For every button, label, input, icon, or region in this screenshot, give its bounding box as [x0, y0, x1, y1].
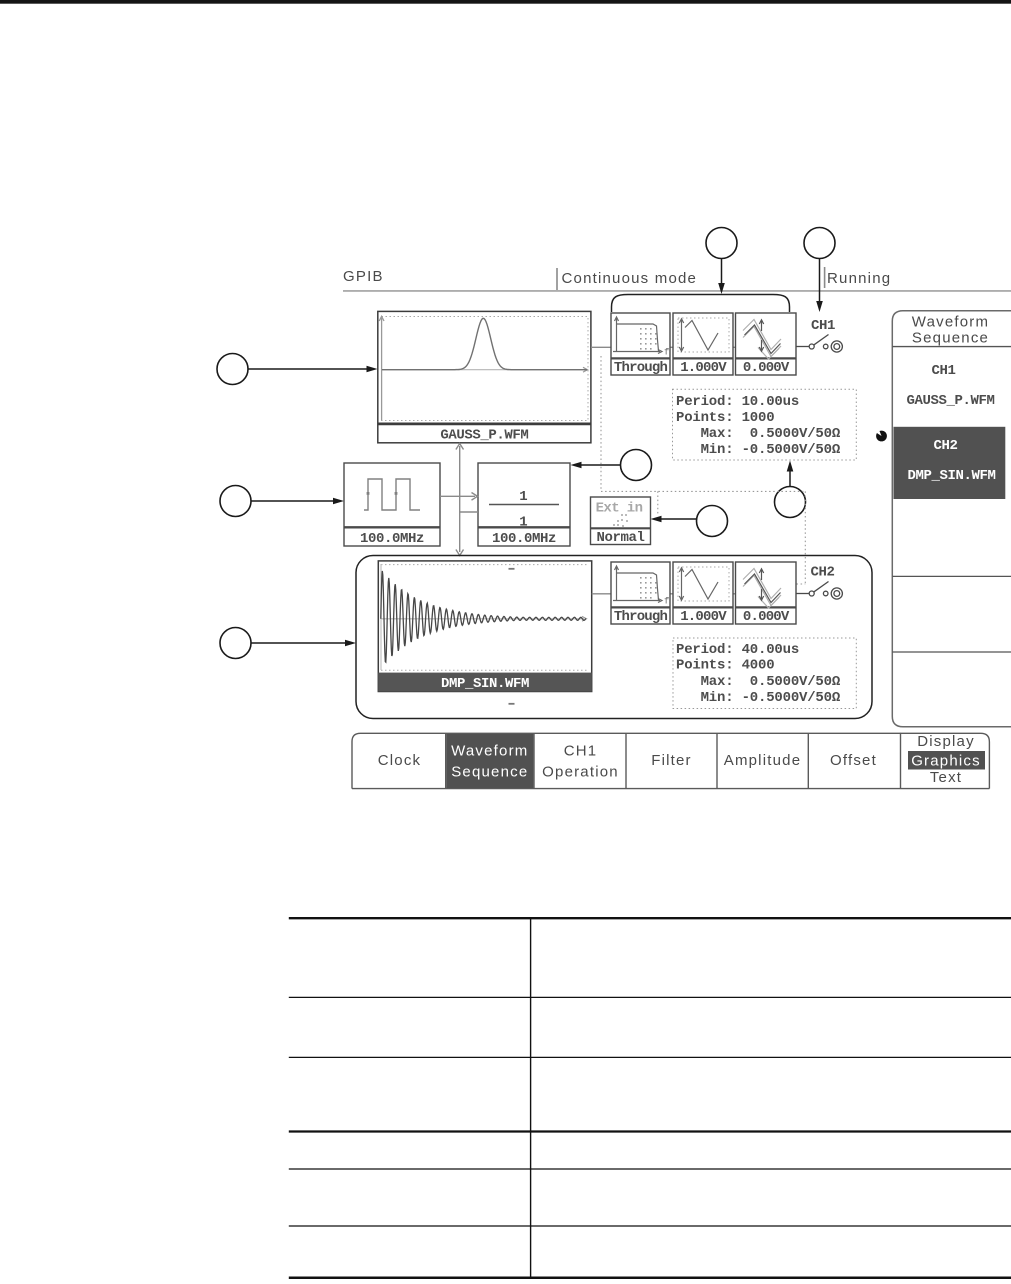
callout arrow 5	[571, 462, 621, 469]
CH1 period info dotted box	[673, 389, 857, 460]
callout circle 8	[220, 628, 251, 659]
table row rule 2	[289, 996, 1011, 998]
svg-text:Period: 40.00us: Period: 40.00us	[676, 642, 799, 658]
svg-text:Ext in: Ext in	[596, 501, 643, 517]
svg-text:Waveform: Waveform	[912, 314, 989, 331]
svg-text:Period: 10.00us: Period: 10.00us	[676, 394, 799, 410]
svg-text:Graphics: Graphics	[911, 753, 981, 770]
right menu separator 2	[892, 651, 1011, 653]
bottom menu cell dividers	[446, 733, 809, 788]
svg-text:1: 1	[519, 515, 527, 531]
svg-text:CH2: CH2	[933, 438, 957, 454]
callout circle 3	[706, 228, 737, 259]
callout arrow 7	[787, 461, 794, 487]
status separator tick left	[556, 268, 558, 290]
status separator tick right	[824, 267, 826, 288]
svg-text:CH1: CH1	[811, 318, 835, 334]
CH2 filter amplitude offset boxes	[611, 562, 796, 625]
svg-text:GPIB: GPIB	[343, 268, 384, 285]
callout arrow 2	[251, 498, 344, 505]
menu item Waveform Sequence selected	[446, 734, 533, 788]
svg-text:Clock: Clock	[378, 752, 422, 769]
svg-text:Sequence: Sequence	[912, 330, 989, 347]
CH1 period info text	[676, 394, 841, 458]
bottom menu bar frame	[352, 733, 901, 788]
dotted trigger path vertical right	[804, 491, 806, 584]
svg-text:Normal: Normal	[596, 530, 644, 546]
svg-text:100.0MHz: 100.0MHz	[360, 531, 424, 547]
svg-text:Points: 1000: Points: 1000	[676, 410, 774, 426]
callout circle 5	[621, 450, 652, 481]
table row rule 3	[289, 1056, 1011, 1058]
svg-text:Amplitude: Amplitude	[724, 752, 802, 769]
svg-text:Display: Display	[917, 733, 975, 750]
GAUSS_P waveform display box	[378, 311, 591, 442]
svg-text:Min: -0.5000V/50Ω: Min: -0.5000V/50Ω	[676, 690, 841, 706]
dotted trigger path vertical left	[600, 356, 602, 491]
table row rule 5	[289, 1168, 1011, 1170]
right side menu frame	[892, 311, 1011, 727]
DMP y-axis	[380, 564, 382, 670]
table column divider	[530, 918, 532, 1278]
dotted stub to CH2 switch	[797, 583, 806, 585]
wire GAUSS to filter row	[591, 346, 611, 348]
callout circle 1	[217, 354, 248, 385]
svg-text:Filter: Filter	[651, 752, 692, 769]
svg-text:100.0MHz: 100.0MHz	[492, 531, 556, 547]
svg-text:Points: 4000: Points: 4000	[676, 658, 774, 674]
right menu CH2 selected item	[894, 427, 1006, 499]
callout arrow 4	[816, 259, 823, 313]
divider fraction 1/1	[489, 489, 559, 531]
svg-text:Text: Text	[930, 769, 962, 786]
bottom menu bottom rule	[352, 788, 989, 790]
CH2 period info text	[676, 642, 841, 706]
callout arrow 8	[251, 640, 356, 647]
DMP baseline	[381, 616, 587, 621]
tick dash below DMP label	[509, 703, 515, 705]
DMP_SIN waveform display box	[378, 561, 591, 692]
svg-text:Waveform: Waveform	[451, 743, 528, 760]
callout circle 4	[804, 228, 835, 259]
callout circle 6	[697, 506, 728, 537]
wire clock to divider	[440, 493, 478, 501]
svg-text:GAUSS_P.WFM: GAUSS_P.WFM	[906, 393, 994, 409]
tick dash above DMP box	[509, 568, 515, 570]
CH2 period info dotted box	[673, 638, 856, 709]
status bar rule	[343, 290, 1011, 292]
Ext in trigger dots icon	[613, 514, 628, 527]
svg-text:Running: Running	[827, 270, 891, 287]
dotted trigger path horizontal	[601, 490, 805, 492]
CH1 filter amplitude offset boxes	[611, 313, 796, 376]
svg-text:CH1: CH1	[564, 743, 598, 760]
dotted stub to Ext in	[657, 491, 659, 514]
callout arrow 1	[248, 366, 378, 373]
table row rule 4	[289, 1130, 1011, 1132]
knob icon	[875, 429, 887, 442]
svg-text:DMP_SIN.WFM: DMP_SIN.WFM	[907, 468, 995, 484]
callout arrow 3	[718, 259, 725, 295]
svg-text:GAUSS_P.WFM: GAUSS_P.WFM	[440, 427, 528, 443]
GAUSS y-axis	[379, 316, 384, 420]
DMP damped sine curve	[381, 571, 586, 662]
wire segments between CH2 boxes	[670, 593, 673, 595]
clock square wave icon	[364, 479, 420, 510]
svg-text:Max: 0.5000V/50Ω: Max: 0.5000V/50Ω	[676, 674, 841, 690]
top rule	[0, 0, 1011, 4]
svg-text:Max: 0.5000V/50Ω: Max: 0.5000V/50Ω	[676, 426, 841, 442]
svg-text:Operation: Operation	[542, 764, 619, 781]
svg-text:Min: -0.5000V/50Ω: Min: -0.5000V/50Ω	[676, 442, 841, 458]
right menu separator 1	[892, 575, 1011, 577]
CH2 group rounded outline	[356, 556, 872, 719]
callout circle 2	[220, 486, 251, 517]
svg-text:Sequence: Sequence	[451, 764, 528, 781]
table row rule 6	[289, 1225, 1011, 1227]
CH1 output switch	[796, 335, 842, 353]
svg-text:1: 1	[519, 489, 527, 505]
clock box	[344, 463, 440, 546]
callout circle 7	[775, 487, 806, 518]
svg-text:Continuous mode: Continuous mode	[562, 270, 698, 287]
menu item Graphics selected	[908, 751, 985, 770]
GAUSS pulse curve	[382, 318, 587, 369]
divider box	[478, 463, 570, 546]
svg-text:Offset: Offset	[830, 752, 877, 769]
wire DMP to CH2 filter row	[592, 593, 611, 595]
bottom menu display cell frame	[901, 733, 990, 788]
CH2 output switch	[796, 582, 842, 600]
table bottom rule	[289, 1277, 1011, 1280]
CH1 grouping bracket	[612, 295, 790, 313]
wire segments between CH1 boxes	[670, 346, 673, 348]
GAUSS baseline x-axis	[382, 367, 588, 372]
wire divider branch stub	[460, 511, 478, 513]
svg-text:CH2: CH2	[810, 565, 834, 581]
Ext in / Normal box	[591, 497, 651, 545]
svg-text:CH1: CH1	[931, 363, 955, 379]
callout arrow 6	[651, 516, 697, 523]
table top rule	[289, 917, 1011, 919]
right menu title underline	[892, 346, 1011, 348]
svg-text:DMP_SIN.WFM: DMP_SIN.WFM	[441, 676, 529, 692]
wire junction vertical	[456, 444, 464, 556]
